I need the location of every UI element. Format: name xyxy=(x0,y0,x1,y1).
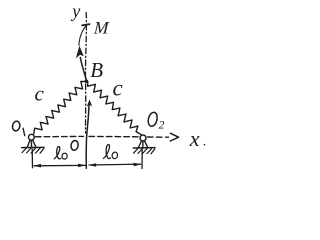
svg-text:c: c xyxy=(35,82,45,106)
dim arrow right-line right end pointing right xyxy=(134,163,142,167)
pin circle O2 xyxy=(140,135,146,141)
svg-text:c: c xyxy=(113,75,123,100)
dim arrow left-line right end pointing right xyxy=(78,164,86,168)
displacement arrow thin continuation to M xyxy=(79,26,86,46)
x-axis dashed line left segment (O1 to O) xyxy=(36,135,84,137)
label O1 : subscript 1 xyxy=(23,128,25,135)
svg-text:2: 2 xyxy=(159,118,165,132)
y-axis dash-dot centerline xyxy=(84,13,87,134)
dim arrow left end pointing left xyxy=(33,164,41,168)
dimension line left (l0) xyxy=(34,164,85,166)
label O1 : O ellipse xyxy=(12,120,21,131)
x-axis open arrowhead xyxy=(170,133,178,141)
extension line below O1 xyxy=(31,149,33,168)
x-axis dashed line beyond O2 xyxy=(148,136,169,138)
y-axis up arrow shaft from O xyxy=(86,104,89,168)
displacement arrowhead (filled, pointing up) xyxy=(76,46,84,58)
label O2 : O ellipse xyxy=(147,111,159,127)
right spring (stiffness c) xyxy=(88,82,142,135)
hatching O2 xyxy=(134,148,155,154)
left spring (stiffness c) xyxy=(34,82,85,134)
svg-text:M: M xyxy=(92,18,110,38)
tick at M xyxy=(82,24,90,25)
dim arrow right-line left end pointing left xyxy=(88,163,96,167)
junction dot at B xyxy=(85,80,88,83)
support legs O2 xyxy=(138,141,147,148)
hatching O1 xyxy=(22,148,44,154)
x-axis dashed line right segment (O to O2) xyxy=(89,135,139,137)
label l0 left : subscript o xyxy=(61,153,67,160)
ground line O1 xyxy=(22,146,45,148)
support legs O1 xyxy=(27,140,36,147)
label l0 right : subscript o xyxy=(111,152,118,160)
extension line below O2 xyxy=(141,149,143,169)
ground line O2 xyxy=(133,147,155,149)
label origin O : ellipse xyxy=(70,140,79,151)
y-axis arrowhead at (89,101) xyxy=(87,100,92,107)
displacement arrow shaft B to arrowhead xyxy=(80,58,86,81)
svg-text:x: x xyxy=(189,126,200,151)
svg-text:y: y xyxy=(70,1,80,21)
label l0 right : script ell xyxy=(103,145,110,159)
dimension line right (l0) xyxy=(89,163,141,166)
svg-text:B: B xyxy=(90,58,103,82)
svg-text:.: . xyxy=(203,135,207,150)
pin circle O1 xyxy=(29,134,35,140)
label l0 left : script ell xyxy=(54,146,60,158)
